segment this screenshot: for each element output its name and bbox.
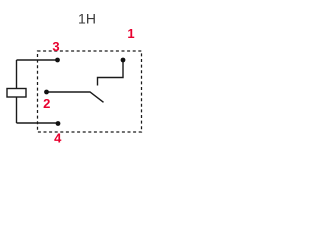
svg-text:4: 4 bbox=[54, 131, 62, 146]
svg-text:3: 3 bbox=[52, 39, 59, 54]
wire: pin 3 horizontal bbox=[17, 59, 58, 61]
wire: pin 2 armature and contact blade bbox=[47, 92, 104, 102]
svg-text:2: 2 bbox=[43, 96, 50, 111]
pin 2 terminal dot bbox=[44, 90, 49, 95]
wire: pin 1 to fixed contact bbox=[98, 60, 124, 86]
wire: coil left vertical bbox=[16, 60, 18, 123]
wire: pin 4 horizontal bbox=[17, 122, 59, 124]
pin 4 terminal dot bbox=[56, 121, 61, 126]
svg-text:1H: 1H bbox=[78, 11, 96, 27]
svg-text:1: 1 bbox=[127, 26, 134, 41]
pin 3 terminal dot bbox=[55, 58, 60, 63]
coil bbox=[7, 89, 26, 98]
relay outline (dashed enclosure) bbox=[38, 51, 142, 132]
pin 1 terminal dot bbox=[121, 58, 126, 63]
